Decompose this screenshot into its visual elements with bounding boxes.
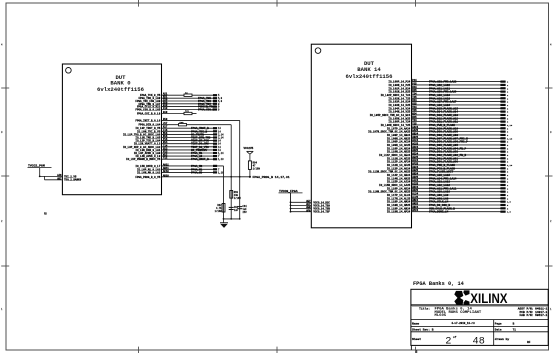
wire U1B pin AL24 net FPGA_A09_LA9 <box>387 192 509 197</box>
svg-text:FPGA_INIT_B: FPGA_INIT_B <box>191 158 209 161</box>
svg-text:TVCC2_PGM: TVCC2_PGM <box>28 164 45 168</box>
wire U1B pin R24 net FPGA_A21_LA21 <box>388 86 508 91</box>
wire U1B pin AG25 net FPGA_FLASH_WAIT <box>368 169 509 174</box>
wire U1 pin B21 net FPGA_TCK <box>139 96 223 101</box>
title block stub line <box>411 345 416 353</box>
wire U1B pin AP24 net FPGA_DONE_14 <box>387 209 512 214</box>
border zone letters <box>1 44 552 312</box>
svg-text:FPGA_CSO_B: FPGA_CSO_B <box>198 109 215 112</box>
svg-text:XILINX: XILINX <box>470 290 508 306</box>
reference R5 text <box>44 213 47 216</box>
wire U1B pin AL25 net FPGA_A08_LA8 <box>387 196 509 201</box>
wire U1B pin AN24 net USR_CCLK_FLASH_B <box>387 206 509 211</box>
resistor R62 <box>215 204 225 213</box>
wire U1B pin Y25 net FPGA_FWE_B_FLASH <box>381 122 513 127</box>
svg-text:FPGA_CSO_B_0_LA5: FPGA_CSO_B_0_LA5 <box>135 109 160 112</box>
U1 title DUT <box>115 74 126 81</box>
wire U1 pin G18 net FPGA_CSI_B_0_L8 <box>137 110 197 116</box>
wire U1B pin AB24 net FPGA_D08_FLASH_A08 <box>387 132 509 137</box>
wire U1B pin AB25 net FPGA_D07_FLASH_A07_FMC_N <box>387 136 513 141</box>
svg-text:6vlx240tff1156: 6vlx240tff1156 <box>346 73 394 80</box>
svg-text:of: of <box>453 335 457 339</box>
wire U1B pin AD24 net FPGA_D04_FLASH_A04_FB_P <box>387 146 509 151</box>
FPGA symbol U1 BANK 0 body <box>62 64 161 195</box>
wire U1B pin AF8 net VCCO_14_TSF <box>290 209 331 213</box>
wire U1B pin AC24 net FPGA_D06_FLASH_A06_FMC_P <box>387 139 509 144</box>
svg-text:FPGA_CSI_B_0_L8: FPGA_CSI_B_0_L8 <box>137 113 161 116</box>
svg-text:IO_L19N_14_AP24: IO_L19N_14_AP24 <box>387 211 411 214</box>
svg-text:4-v7-2019_13-r3: 4-v7-2019_13-r3 <box>451 322 475 325</box>
wire U1 pin R14 net TEST_D0_CMS <box>134 141 222 146</box>
U1 left pin numbers <box>57 174 62 181</box>
wire U1B pin AH25 net FPGA_A14_FMC_LA14 <box>387 176 509 181</box>
wire U1 pin L16 net FPGA_TDI_B <box>137 129 221 134</box>
wire U1 pin U13 net NC_TERMINV <box>135 147 221 152</box>
svg-text:FAB P/N: 50517-1: FAB P/N: 50517-1 <box>520 313 548 317</box>
rev row <box>412 328 516 332</box>
title field value <box>435 307 482 319</box>
wire U1 pin E19 net PUDC_B_TRST <box>137 104 220 109</box>
svg-text:Sheet Rev: B: Sheet Rev: B <box>412 328 434 332</box>
U1B title DUT <box>364 60 375 67</box>
wire U1 pin N15 net TEST_BTN_TMS <box>135 135 224 140</box>
svg-text:1,13: 1,13 <box>218 158 224 161</box>
wire vertical net B (x231) <box>230 125 232 219</box>
svg-text:FPGA_M0: FPGA_M0 <box>191 171 203 174</box>
wire U1 pin AC10 net FPGA_M0 <box>137 170 224 175</box>
wire U1 pin W12 net FPGA_A0 <box>135 154 220 159</box>
svg-text:RF: RF <box>527 341 531 344</box>
wire U1 pin F19 net FPGA_CSO_B <box>135 107 220 112</box>
wire U1B pin V24 net FPGA_D15_FLASH_A15 <box>388 106 508 111</box>
resistor R63 <box>230 191 242 200</box>
Xilinx logo <box>454 290 508 306</box>
U1 left pin names <box>64 175 82 181</box>
svg-text:2: 2 <box>445 336 451 348</box>
U1B pin-1 marker circle <box>315 48 321 54</box>
svg-text:R61: R61 <box>185 110 190 113</box>
wire U1B pin AF24 net FPGA_D00_FLASH_A00 <box>387 159 509 164</box>
wire bottom tie <box>223 218 241 220</box>
wire U1B pin AM24 net FPGA_CCLK_14 <box>387 199 512 204</box>
svg-text:BANK 14: BANK 14 <box>357 66 381 73</box>
svg-text:25V: 25V <box>243 211 248 214</box>
wire U1 TDO return <box>45 176 63 179</box>
U1B title BANK 14 <box>357 66 381 73</box>
wire vertical net C (x240) <box>239 120 241 218</box>
wire U1 pin P15 net TEST_BT_TCK <box>135 138 221 143</box>
svg-text:FPGA_PROG_B_0_V5: FPGA_PROG_B_0_V5 <box>135 176 160 179</box>
wire U1B pin AK24 net FPGA_A11_FMC_LA11 <box>387 186 509 191</box>
svg-text:TVCC0_FPGA: TVCC0_FPGA <box>279 189 298 193</box>
svg-text:VCCO_14_TSF: VCCO_14_TSF <box>313 211 330 214</box>
wire U1B pin T25 net FPGA_A18_LA18 <box>388 96 508 101</box>
svg-text:Name: Name <box>412 323 419 326</box>
node FPGA_PROG_B junction <box>230 176 251 178</box>
wire U1B pin AE8 net VCCO_14_TSB <box>290 206 331 210</box>
wire U1B pin AH24 net FPGA_A15_LA15 <box>387 172 509 177</box>
title block frame <box>411 289 548 345</box>
svg-text:Sheet: Sheet <box>412 337 421 341</box>
svg-text:drawn by: drawn by <box>495 337 510 341</box>
power label TVCC2_PGM <box>28 164 52 168</box>
U1B part number 6vlx240tff1156 <box>346 73 394 80</box>
capacitor C62 <box>229 206 239 212</box>
wire U1B pin V25 net FPGA_D14_FLASH_A14 <box>388 109 508 114</box>
ground <box>220 219 228 228</box>
svg-text:FPGA_DONE_14: FPGA_DONE_14 <box>429 211 449 214</box>
wire U1 pin AA11 net FPGA_M2 <box>135 163 223 168</box>
wire U1B pin AJ25 net FPGA_A12_LA12 <box>379 182 509 187</box>
net label FPGA_PROG_B <box>253 175 290 179</box>
wire U1 pin C20 net FPGA_TDO <box>135 99 222 104</box>
wire U1 pin D20 net FPGA_TDI <box>139 101 220 106</box>
wire TVCC0_FPGA bus <box>290 193 292 212</box>
svg-text:FPGA_PROG_B 14,17,31: FPGA_PROG_B 14,17,31 <box>253 175 290 179</box>
wire U1 pin J17 net FPGA_DIN_0_LA4 <box>139 121 232 127</box>
svg-text:FPGA Banks 0, 14: FPGA Banks 0, 14 <box>413 281 465 287</box>
svg-text:IO_L5P_PRGRM_B_MRCC_V5: IO_L5P_PRGRM_B_MRCC_V5 <box>126 158 161 161</box>
name row <box>412 322 515 325</box>
wire vertical net A (x224) <box>223 166 225 219</box>
svg-text:VCC2V5: VCC2V5 <box>244 147 254 150</box>
wire TVCC2_PGM to U1 <box>39 168 63 178</box>
wire U1B pin AJ24 net FPGA_A13_LA13 <box>387 179 509 184</box>
wire U1 pin H18 net FPGA_INIT_B_0_L6 <box>135 118 239 123</box>
wire U1B pin AG24 net FPGA_FCS_B_FLASH <box>387 166 509 171</box>
wire U1B pin P25 net FPGA_A22_LA22 <box>388 82 508 87</box>
wire U1 pin T14 net TEST_D1_VIO <box>123 144 221 149</box>
wire U1B pin AK25 net FPGA_A10_LA10 <box>368 189 509 194</box>
wire U1 pin AD10 net FPGA_PROG_B_0_V5 <box>135 174 250 179</box>
title field label <box>419 307 430 311</box>
capacitor C64 <box>237 205 247 214</box>
U1 part number 6vlx240tff1156 <box>97 86 145 93</box>
wire U1B pin AA25 net FPGA_D09_FLASH_A09 <box>368 129 509 134</box>
svg-text:1uF: 1uF <box>234 209 239 212</box>
wire U1B pin AE7 net VCCO_14_R2C <box>290 200 331 204</box>
wire U1B pin U24 net FPGA_A17_FMC_LA17 <box>388 99 508 104</box>
sheet number row <box>412 335 531 348</box>
wire U1B pin AE24 net FPGA_D02_FLASH_A02_FB_N <box>379 152 509 157</box>
wire U1B pin Y24 net FPGA_D11_FLASH_A11 <box>388 119 508 124</box>
svg-text:71: 71 <box>513 329 517 332</box>
wire U1 pin V13 net FPGA_M1 <box>134 151 224 156</box>
U1 pin-1 marker circle <box>66 68 72 74</box>
svg-text:1/16W: 1/16W <box>215 210 223 213</box>
wire U1B pin P24 net FPGA_A23_FMC_LA23 <box>388 79 508 84</box>
wire U1B pin R25 net FPGA_A20_FMC_LA20 <box>388 89 508 94</box>
part number fields <box>518 307 548 318</box>
svg-text:IO_L6N_M0_0_LA2: IO_L6N_M0_0_LA2 <box>137 171 161 174</box>
wire U1B pin T24 net FPGA_A19_LA19 <box>381 92 509 97</box>
wire U1B pin AF7 net VCCO_14_TSA <box>290 203 331 207</box>
wire U1B pin AM25 net FPGA_D0_CSO_B <box>387 202 509 207</box>
svg-text:1,5: 1,5 <box>507 211 512 214</box>
wire U1B pin AC25 net FPGA_D05_FLASH_A05 <box>387 142 509 147</box>
power label TVCC0_FPGA <box>279 189 303 193</box>
svg-text:AF8: AF8 <box>306 209 311 212</box>
wire U1 pin A21 net FPGA_TCK_0_V5 <box>140 91 220 97</box>
wire U1B pin AD25 net FPGA_D03_FLASH_A03 <box>387 149 509 154</box>
resistor R64 <box>248 161 260 177</box>
wire U1B pin AE25 net FPGA_D01_FLASH_A01 <box>387 156 509 161</box>
wire U1B pin AA24 net FPGA_D10_FLASH_A10 <box>387 126 509 130</box>
svg-text:ML605: ML605 <box>435 314 447 318</box>
svg-text:Page: Page <box>495 323 502 326</box>
svg-text:FPGA_INIT_B_0_L6: FPGA_INIT_B_0_L6 <box>135 119 160 122</box>
svg-text:TDO_2_BANK0: TDO_2_BANK0 <box>64 179 82 182</box>
sheet title text <box>413 281 465 287</box>
wire U1B pin AF25 net FPGA_FOE_B_FLASH <box>387 162 513 167</box>
wire U1 pin M16 net NC_TRSTB <box>123 132 224 137</box>
wire U1B pin U25 net FPGA_A16_LA16 <box>388 102 508 107</box>
svg-text:Title:: Title: <box>419 307 430 311</box>
wire U1 pin AB11 net FPGA_M1 <box>137 167 220 172</box>
wire U1 pin Y12 net FPGA_INIT_B <box>126 157 224 162</box>
svg-text:R60: R60 <box>180 121 185 124</box>
wire U1B pin W25 net FPGA_D12_FLASH_A12 <box>388 116 508 121</box>
power flag VCC2V5 <box>244 147 254 161</box>
svg-text:1/16W: 1/16W <box>234 197 242 200</box>
svg-text:Date: Date <box>495 329 502 332</box>
svg-text:1/16W: 1/16W <box>253 168 261 171</box>
svg-text:48: 48 <box>472 337 485 348</box>
svg-text:AK7: AK7 <box>57 177 62 180</box>
wire U1B pin W24 net FPGA_D13_FLASH_A13 <box>370 112 509 117</box>
svg-text:6vlx240tff1156: 6vlx240tff1156 <box>97 86 145 93</box>
wire U1 pin K17 net FPGA_TRST_B <box>135 126 221 131</box>
FPGA symbol U1 BANK 14 body <box>311 44 411 228</box>
U1 title BANK 0 <box>110 79 131 86</box>
